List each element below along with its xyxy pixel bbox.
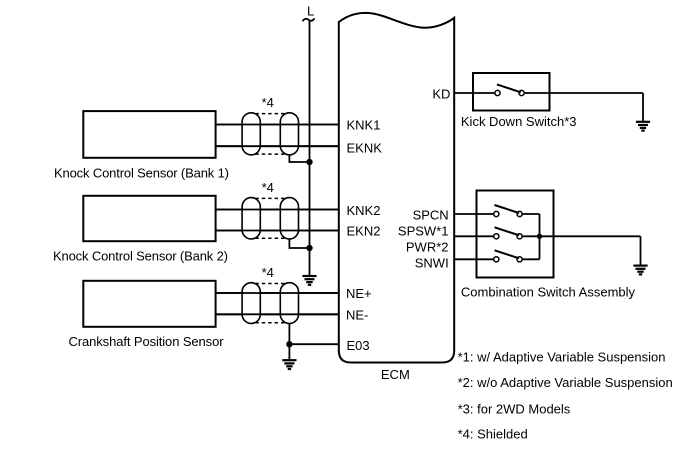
svg-text:*2: w/o Adaptive Variable Susp: *2: w/o Adaptive Variable Suspension xyxy=(458,375,673,390)
svg-text:Knock Control Sensor (Bank 1): Knock Control Sensor (Bank 1) xyxy=(54,165,229,180)
svg-text:NE-: NE- xyxy=(346,308,368,323)
svg-text:L: L xyxy=(307,3,314,18)
svg-text:Knock Control Sensor (Bank 2): Knock Control Sensor (Bank 2) xyxy=(53,248,228,263)
svg-text:E03: E03 xyxy=(347,338,370,353)
svg-text:KD: KD xyxy=(432,87,450,102)
svg-text:EKNK: EKNK xyxy=(347,140,383,155)
svg-text:NE+: NE+ xyxy=(346,286,372,301)
svg-text:KNK1: KNK1 xyxy=(347,118,381,133)
svg-text:SPCN: SPCN xyxy=(413,207,449,222)
svg-text:*1: w/ Adaptive Variable Suspe: *1: w/ Adaptive Variable Suspension xyxy=(458,349,666,364)
svg-text:ECM: ECM xyxy=(381,367,410,382)
svg-text:SPSW*1: SPSW*1 xyxy=(398,224,449,239)
svg-text:KNK2: KNK2 xyxy=(347,203,381,218)
svg-text:*3: for 2WD Models: *3: for 2WD Models xyxy=(458,402,571,417)
svg-text:Crankshaft Position Sensor: Crankshaft Position Sensor xyxy=(69,334,225,349)
svg-text:*4: *4 xyxy=(262,265,274,280)
svg-text:*4: Shielded: *4: Shielded xyxy=(458,427,528,442)
svg-text:Combination Switch Assembly: Combination Switch Assembly xyxy=(461,285,636,300)
svg-text:PWR*2: PWR*2 xyxy=(406,240,449,255)
svg-text:*4: *4 xyxy=(262,95,274,110)
svg-text:SNWI: SNWI xyxy=(415,256,449,271)
svg-text:Kick Down Switch*3: Kick Down Switch*3 xyxy=(461,114,577,129)
svg-text:*4: *4 xyxy=(262,180,274,195)
svg-text:EKN2: EKN2 xyxy=(347,224,381,239)
